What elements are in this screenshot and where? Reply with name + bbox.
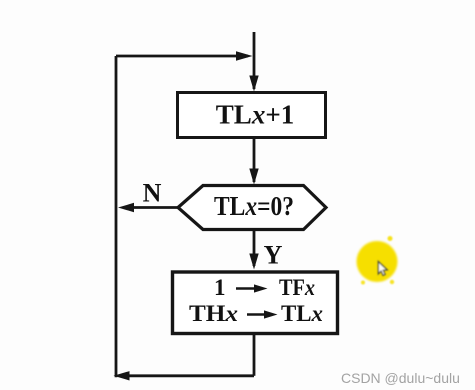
highlight yellow circle (357, 241, 398, 282)
wire top entry vertical (253, 32, 256, 89)
wire loop top horizontal (116, 55, 248, 58)
process box1 TLx+1 (178, 93, 326, 138)
arrowhead into top node (236, 51, 253, 61)
arrowhead into box1 (249, 76, 258, 92)
wire box2 down (253, 335, 256, 376)
svg-text:TLx=0?: TLx=0? (214, 191, 294, 221)
arrowhead into hexagon (249, 169, 258, 185)
svg-text:TLx: TLx (281, 301, 323, 326)
yellow speck top right (388, 236, 393, 241)
svg-text:TLx+1: TLx+1 (216, 100, 294, 130)
wire N branch (124, 206, 178, 209)
watermark CSDN @dulu~dulu (341, 370, 471, 386)
process box2 (173, 272, 338, 334)
mouse cursor (378, 262, 387, 276)
wire hexagon to box2 (253, 228, 256, 266)
arrowhead into box2 (249, 254, 258, 270)
yellow speck bottom right (390, 280, 394, 284)
svg-text:1: 1 (214, 275, 226, 300)
yellow speck bottom left (361, 281, 365, 285)
svg-text:THx: THx (189, 301, 238, 326)
arrowhead bottom into left wire (114, 371, 130, 380)
svg-text:Y: Y (264, 241, 283, 270)
decision hexagon TLx=0? (178, 186, 326, 230)
svg-text:TFx: TFx (279, 275, 315, 300)
svg-text:N: N (143, 179, 162, 208)
arrowhead N into left wire (118, 203, 134, 212)
wire box1 to hexagon (253, 138, 256, 182)
wire loop bottom horizontal (122, 374, 254, 377)
wire loop left vertical (115, 56, 118, 377)
